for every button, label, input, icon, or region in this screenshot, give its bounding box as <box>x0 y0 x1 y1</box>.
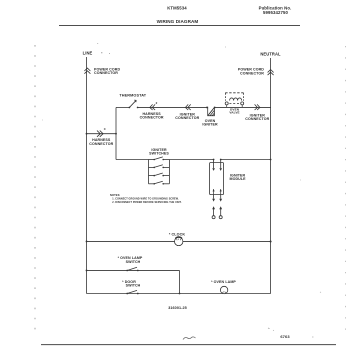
left edge tick marks <box>34 45 36 336</box>
svg-text:NOTES:: NOTES: <box>110 193 120 197</box>
clock (symbol) <box>175 237 183 245</box>
wire second rung y=159.5 <box>116 159 149 161</box>
svg-text:NEUTRAL: NEUTRAL <box>260 52 281 57</box>
wire left L1 vertical <box>86 57 88 294</box>
svg-text:6763: 6763 <box>280 334 290 339</box>
glow igniter terminals GL GL <box>212 216 215 219</box>
svg-text:316001-25: 316001-25 <box>168 306 187 310</box>
module bottom inner pins <box>213 189 215 195</box>
oven lamp (symbol) <box>220 286 227 293</box>
svg-text:LINE: LINE <box>83 51 93 56</box>
svg-text:IGNITER: IGNITER <box>202 122 218 126</box>
svg-text:5995342750: 5995342750 <box>263 10 288 15</box>
igniter connector left (symbol <<) <box>185 104 188 110</box>
wire door switch rung y=293.5 <box>87 293 271 295</box>
module output connector arrows <box>213 195 215 199</box>
svg-text:* CLOCK: * CLOCK <box>169 232 186 236</box>
svg-text:SWITCH: SWITCH <box>126 260 141 264</box>
module pin drops from rung <box>213 159 215 161</box>
svg-text:2: 2 <box>156 101 158 105</box>
igniter switch 3 <box>149 173 170 176</box>
svg-text:CONNECTOR: CONNECTOR <box>175 116 199 120</box>
noise specks near LINE <box>101 52 102 54</box>
door switch <box>126 293 128 295</box>
svg-text:1. CONNECT GROUND WIRE TO GROU: 1. CONNECT GROUND WIRE TO GROUNDING SCRE… <box>112 197 179 200</box>
svg-text:SWITCH: SWITCH <box>126 284 141 288</box>
svg-text:* OVEN LAMP: * OVEN LAMP <box>211 280 236 284</box>
svg-text:VALVE: VALVE <box>229 111 239 115</box>
power cord connector right (symbol) <box>268 70 274 73</box>
igniter switch 4 <box>149 181 170 184</box>
oven igniter (hatched symbol) <box>206 106 208 108</box>
svg-text:CONNECTOR: CONNECTOR <box>240 71 264 75</box>
svg-text:THERMOSTAT: THERMOSTAT <box>119 93 146 97</box>
wire clock rung y=241 <box>87 240 271 242</box>
faint specks lower right <box>268 327 270 330</box>
bottom scan edge line <box>41 344 336 346</box>
scan noise specks <box>42 44 321 338</box>
igniter connector right (symbol >>) <box>255 104 258 110</box>
power cord connector left (symbol) <box>84 68 90 71</box>
harness connector on top rung (symbol <<) <box>150 104 153 110</box>
svg-text:WIRING DIAGRAM: WIRING DIAGRAM <box>157 19 199 24</box>
svg-text:CONNECTOR: CONNECTOR <box>94 71 118 75</box>
harness connector (symbol >>) <box>97 131 100 137</box>
svg-text:SWITCHES: SWITCHES <box>149 152 169 156</box>
svg-text:2. DISCONNECT POWER BEFORE SER: 2. DISCONNECT POWER BEFORE SERVICING THE… <box>112 201 181 204</box>
igniter switch 2 <box>149 165 170 168</box>
oven lamp switch <box>126 270 128 272</box>
igniter module U1 <box>210 163 224 195</box>
right edge tick marks <box>345 46 347 330</box>
thermostat (switch) <box>129 107 131 109</box>
wire inner-left vertical <box>115 107 117 159</box>
wire right neutral vertical <box>270 58 272 294</box>
wire drop from lamp switch rung <box>179 270 181 293</box>
svg-text:CONNECTOR: CONNECTOR <box>245 117 269 121</box>
svg-text:C: C <box>104 127 106 131</box>
svg-text:KTM5534: KTM5534 <box>167 6 187 11</box>
handwritten squiggle <box>183 337 196 340</box>
svg-text:CONNECTOR: CONNECTOR <box>140 116 164 120</box>
oven valve (solenoid symbol) <box>225 92 243 94</box>
wire harness rung y=133.7 <box>87 133 117 135</box>
svg-text:CONNECTOR: CONNECTOR <box>89 142 113 146</box>
wire oven lamp switch rung y=270.45 <box>87 269 180 271</box>
svg-text:MODULE: MODULE <box>230 177 247 181</box>
header rule <box>59 24 300 26</box>
wire top rung y=107 <box>116 106 129 108</box>
igniter switch 1 <box>149 157 170 160</box>
igniter switches bank rails <box>148 160 150 184</box>
